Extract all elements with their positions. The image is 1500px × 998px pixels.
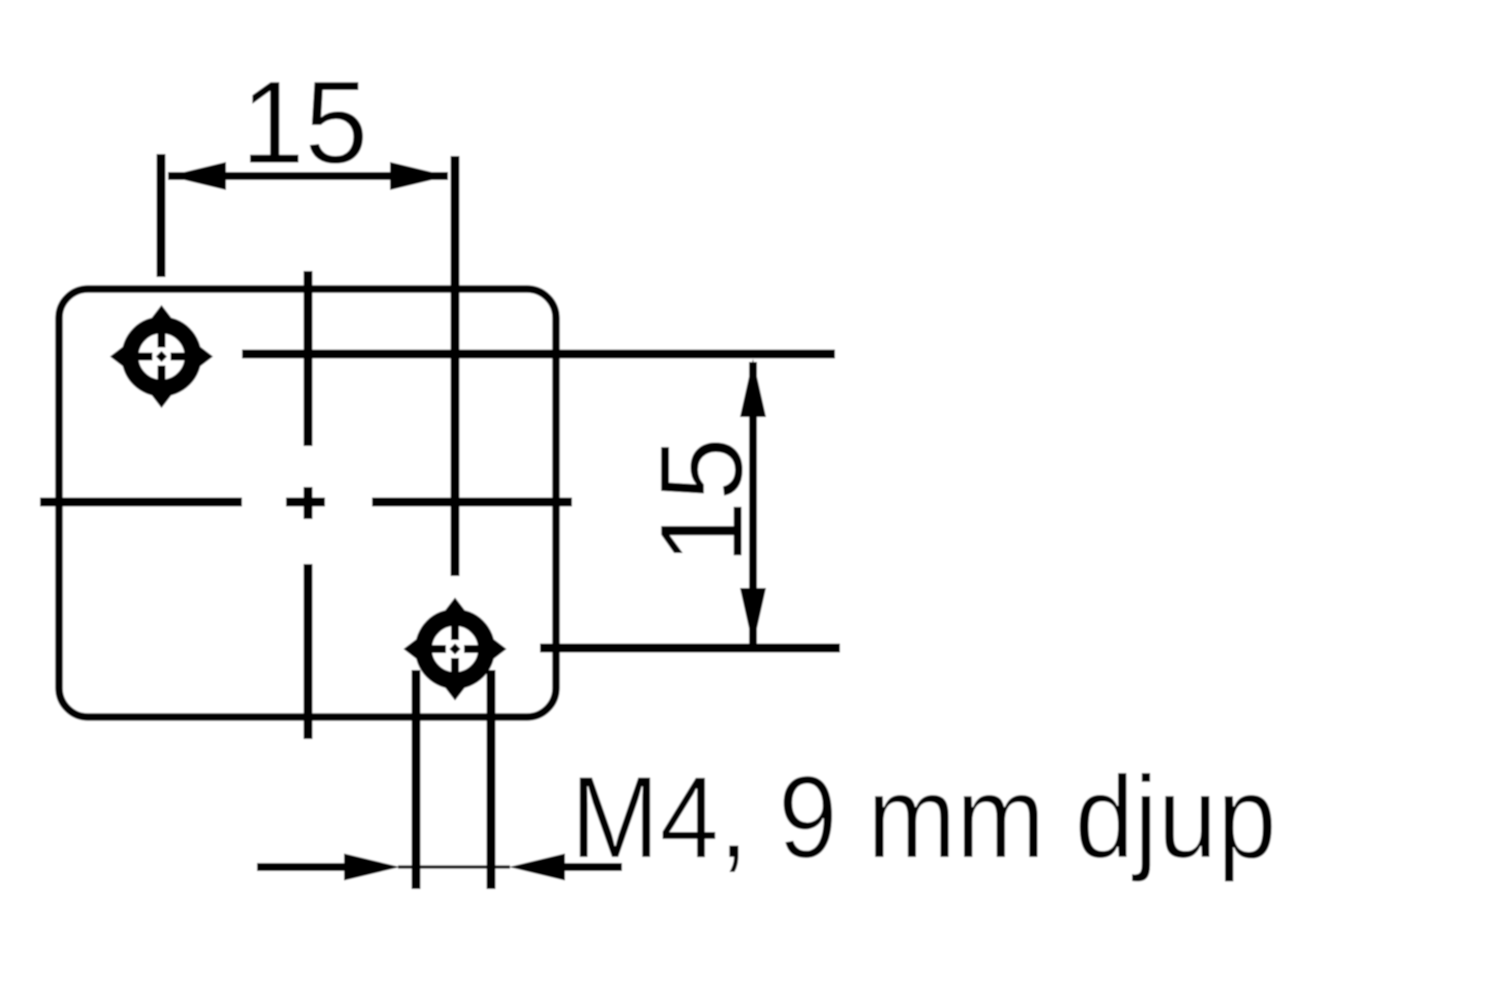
M4 extension line left [412,670,421,889]
plate outline [59,289,556,717]
vertical centerline of plate [304,271,313,446]
M4 extension line right [487,670,496,889]
top dimension right arrowhead [390,162,448,190]
right dimension bottom arrowhead [740,588,766,646]
extension line left of top dimension [157,154,166,277]
top dimension left arrowhead [168,162,226,190]
M4 right arrowhead pointing left [509,854,565,881]
top dimension line [168,172,448,180]
svg-text:15: 15 [635,437,767,564]
leader line from hole H1 [242,350,835,359]
M4 left arrowhead pointing right [344,854,400,881]
svg-text:15: 15 [241,56,368,188]
extension line right of top dimension / centerline through hole H2 [451,156,460,576]
leader line from hole H2 [540,644,840,653]
hole H1 top-left [110,305,213,408]
horizontal centerline of plate [40,498,242,507]
svg-text:M4, 9 mm djup: M4, 9 mm djup [571,752,1277,883]
M4 right leader line [563,863,622,871]
hole H2 bottom [404,598,507,701]
M4 thin dimension line [398,865,510,868]
right dimension top arrowhead [740,359,766,417]
M4 left leader line [257,863,348,871]
right dimension line vertical [749,362,757,646]
